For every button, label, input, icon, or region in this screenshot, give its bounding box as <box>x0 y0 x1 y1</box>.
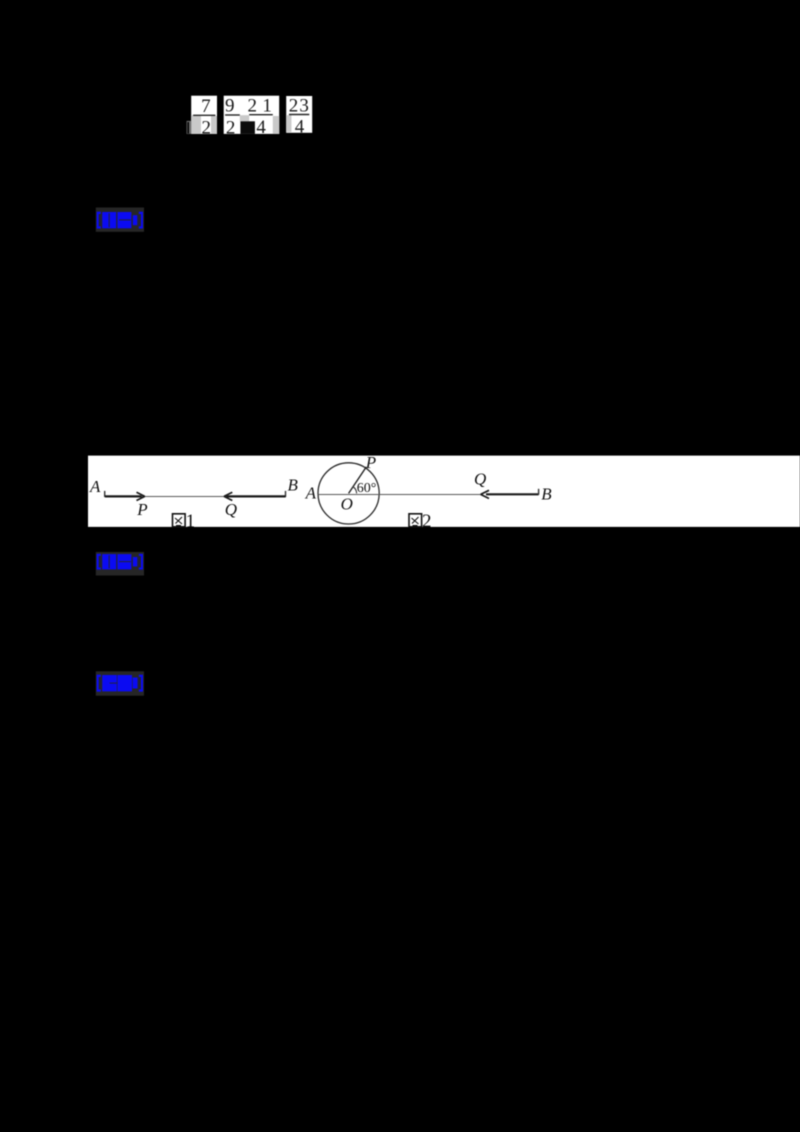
blue marker 1 (【解析】 highlighted label) <box>96 208 144 232</box>
svg-text:2: 2 <box>226 117 236 138</box>
caption 图2 <box>409 511 432 532</box>
svg-text:B: B <box>541 485 552 504</box>
svg-text:9: 9 <box>225 96 235 117</box>
svg-text:7: 7 <box>201 96 211 117</box>
fraction 7/2 image box <box>191 96 217 139</box>
end tick at B <box>285 491 287 497</box>
svg-text:2: 2 <box>422 511 432 532</box>
circle O <box>318 463 379 524</box>
svg-text:O: O <box>341 494 353 513</box>
svg-text:P: P <box>365 453 376 472</box>
vector P arrow (rightward) <box>105 495 142 497</box>
svg-text:60°: 60° <box>357 481 377 496</box>
svg-text:2: 2 <box>202 118 212 139</box>
svg-text:A: A <box>89 477 101 496</box>
fraction 9/2 , 21/4 image box <box>224 96 280 139</box>
blue marker 2 (【答案】 highlighted label) <box>96 552 144 576</box>
figure 2 : circle O with radius OP at 60°, line AB with arrow Q <box>305 453 553 532</box>
vector Q arrow (leftward) <box>227 495 286 497</box>
wire: segment AB <box>105 496 286 498</box>
black text smudge left of fraction box <box>187 121 192 134</box>
radius OP <box>349 467 367 494</box>
svg-text:1: 1 <box>186 511 196 532</box>
blue marker 3 (【点评】 highlighted label) <box>96 671 144 695</box>
svg-text:Q: Q <box>225 500 237 519</box>
svg-text:4: 4 <box>256 117 266 138</box>
svg-text:P: P <box>136 500 147 519</box>
wire: line A to arrow <box>318 494 483 496</box>
end tick at A <box>104 491 106 497</box>
vector Q arrow (leftward) <box>486 493 539 495</box>
white figure band <box>88 456 800 527</box>
svg-text:A: A <box>305 483 317 502</box>
end tick at B <box>538 489 540 495</box>
svg-text:B: B <box>288 476 299 495</box>
svg-text:21: 21 <box>247 96 277 117</box>
svg-text:23: 23 <box>289 96 310 117</box>
svg-text:Q: Q <box>474 470 486 489</box>
caption 图1 <box>173 511 196 532</box>
figure 1 : line AB with arrows P and Q <box>89 476 299 532</box>
svg-text:4: 4 <box>295 116 305 137</box>
fraction 23/4 image box <box>286 96 312 138</box>
angle arc 60° <box>353 487 357 494</box>
